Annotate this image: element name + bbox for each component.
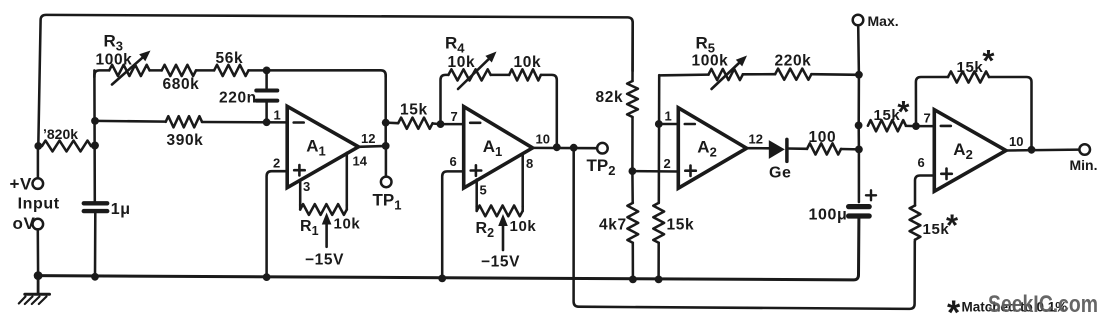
wiper arrow R1 to -15V bbox=[322, 213, 332, 247]
capacitor 220n bbox=[256, 70, 277, 122]
resistor 820k input bbox=[42, 141, 91, 152]
terminal 0V input bbox=[33, 219, 44, 276]
capacitor C 1u bbox=[84, 203, 107, 276]
wire output A2b bbox=[1006, 148, 1079, 151]
op-amp A2 first bbox=[678, 108, 746, 188]
svg-text:100k: 100k bbox=[692, 53, 729, 70]
svg-text:−15V: −15V bbox=[305, 252, 344, 269]
svg-text:56k: 56k bbox=[216, 50, 244, 67]
label pin6 A1b bbox=[450, 154, 457, 169]
label pin8 A1b bbox=[526, 156, 533, 171]
label pin10 A1b bbox=[536, 132, 550, 147]
label pin5 A1b bbox=[480, 183, 487, 198]
svg-text:15k: 15k bbox=[400, 102, 428, 119]
node 15k junction bbox=[382, 119, 390, 127]
svg-text:10k: 10k bbox=[514, 54, 542, 71]
terminal TP1 bbox=[381, 177, 392, 188]
label TP1 bbox=[373, 191, 402, 213]
resistor 390k bbox=[166, 116, 202, 127]
label Input bbox=[18, 196, 60, 213]
svg-text:15k: 15k bbox=[957, 59, 984, 76]
svg-text:4k7: 4k7 bbox=[599, 217, 627, 234]
label pin2 A2a bbox=[664, 156, 671, 171]
node pin2 ground junction bbox=[263, 273, 271, 281]
label R5 bbox=[696, 34, 716, 56]
node 4k7 ground junction bbox=[629, 276, 637, 284]
node ground-rail left bbox=[34, 271, 43, 280]
label 10k R4a bbox=[448, 54, 476, 71]
node pin7 A2b junction bbox=[912, 122, 920, 130]
node divider mid junction bbox=[629, 167, 637, 175]
label 100k R5 bbox=[692, 53, 729, 70]
svg-text:10k: 10k bbox=[448, 54, 476, 71]
label 390k bbox=[167, 132, 204, 149]
label 15k divider bbox=[667, 217, 695, 234]
label matched note bbox=[947, 294, 1067, 322]
label 220k bbox=[775, 53, 812, 70]
svg-text:2: 2 bbox=[664, 156, 671, 171]
svg-text:15k: 15k bbox=[874, 107, 901, 124]
label 4k7 bbox=[599, 217, 627, 234]
resistor 4k7 bbox=[627, 171, 638, 279]
label pin1 A1a bbox=[274, 108, 281, 123]
wiper arrow R2 to -15V bbox=[498, 214, 508, 250]
potentiometer R1 10k bbox=[300, 204, 347, 215]
label +V bbox=[10, 174, 33, 193]
wire +V left vertical and top rail to divider bbox=[38, 15, 632, 146]
resistor 15k interstage bbox=[386, 118, 441, 129]
node 15k-star left junction bbox=[855, 122, 863, 130]
svg-text:3: 3 bbox=[303, 179, 310, 194]
wire pin2 A2a bbox=[632, 170, 678, 173]
node R5 feedback right bbox=[855, 71, 863, 79]
node 820k-left junction on +V line bbox=[34, 142, 42, 150]
svg-text:R2: R2 bbox=[476, 220, 495, 240]
svg-text:10: 10 bbox=[1009, 134, 1023, 149]
potentiometer R3 100k bbox=[109, 65, 149, 76]
resistor 82k bbox=[627, 22, 638, 171]
svg-text:10: 10 bbox=[536, 132, 550, 147]
wire inverting input line stage1 bbox=[95, 121, 287, 123]
label 15k-star ground bbox=[923, 208, 960, 243]
svg-text:Ge: Ge bbox=[769, 165, 792, 182]
label pin7 A1b bbox=[451, 109, 458, 124]
svg-text:82k: 82k bbox=[596, 89, 624, 106]
potentiometer R4 10k bbox=[448, 69, 490, 80]
svg-text:Min.: Min. bbox=[1070, 157, 1098, 173]
node pin7 A1b junction bbox=[437, 120, 445, 128]
label 0V bbox=[13, 214, 36, 233]
label pin3 A1a bbox=[303, 179, 310, 194]
label 10k R4b bbox=[514, 54, 542, 71]
wire feedback down to output node A1a bbox=[384, 75, 387, 146]
wire feedback row stage3 bbox=[659, 74, 859, 75]
svg-text:6: 6 bbox=[918, 155, 925, 170]
wire feedback row stage2 bbox=[441, 75, 557, 147]
node 390k-right junction bbox=[263, 118, 271, 126]
potentiometer R2 10k bbox=[477, 206, 523, 217]
label 10k R2 bbox=[510, 218, 537, 235]
ground symbol bbox=[19, 276, 50, 304]
label pin7 A2b bbox=[924, 111, 931, 126]
resistor 100 bbox=[807, 143, 859, 154]
svg-text:TP2: TP2 bbox=[587, 156, 616, 178]
wire pin6 A2b down bbox=[915, 176, 934, 206]
node 390k junction bbox=[91, 117, 99, 125]
svg-text:oV: oV bbox=[13, 214, 36, 233]
label plus 100u bbox=[866, 190, 876, 200]
label pin12 A1a bbox=[361, 131, 375, 146]
wire feedback row stage4 bbox=[916, 77, 1032, 150]
wire pin14 A1a down bbox=[346, 153, 349, 205]
wire pin5 A1b down bbox=[475, 180, 478, 207]
label Ge bbox=[769, 165, 792, 182]
svg-text:220n: 220n bbox=[219, 90, 257, 107]
svg-text:6: 6 bbox=[450, 154, 457, 169]
svg-text:*: * bbox=[982, 43, 995, 78]
wire pin2 A1a to ground rail bbox=[267, 171, 288, 277]
svg-text:8: 8 bbox=[526, 156, 533, 171]
svg-text:12: 12 bbox=[749, 132, 763, 147]
wire pin7 A1b bbox=[441, 123, 464, 126]
svg-text:7: 7 bbox=[924, 111, 931, 126]
label -15V R1 bbox=[305, 252, 344, 269]
wire pin1 A2a bbox=[659, 123, 679, 126]
wire output A2a to diode bbox=[747, 147, 770, 150]
svg-text:10k: 10k bbox=[510, 218, 537, 235]
node output A1a bbox=[382, 142, 390, 150]
label 15k-star input bbox=[874, 94, 911, 129]
svg-text:1μ: 1μ bbox=[111, 201, 131, 218]
op-amp A2 second bbox=[934, 110, 1006, 192]
terminal Max bbox=[853, 15, 864, 75]
label pin10 A2b bbox=[1009, 134, 1023, 149]
svg-text:100μ: 100μ bbox=[809, 207, 848, 224]
label R4 bbox=[445, 34, 465, 56]
label pin12 A2a bbox=[749, 132, 763, 147]
label 820k bbox=[43, 126, 78, 142]
label 680k bbox=[163, 76, 200, 93]
svg-text:Input: Input bbox=[18, 196, 60, 213]
svg-text:TP1: TP1 bbox=[373, 191, 402, 213]
watermark SeekIC.com bbox=[988, 291, 1098, 318]
label 100 bbox=[809, 129, 837, 146]
node output A2a junction bbox=[855, 146, 863, 154]
svg-text:R3: R3 bbox=[104, 32, 124, 54]
svg-text:*: * bbox=[947, 294, 961, 322]
wire node-A vertical (820k/390k/feedback/1u bus) bbox=[93, 70, 96, 201]
label -15V R2 bbox=[481, 254, 520, 271]
op-amp A1 first bbox=[287, 106, 358, 187]
wire pin3 A1a down bbox=[299, 180, 302, 205]
svg-text:14: 14 bbox=[353, 154, 368, 169]
terminal Min bbox=[1079, 144, 1090, 155]
label pin14 A1a bbox=[353, 154, 368, 169]
label pin6 A2b bbox=[918, 155, 925, 170]
resistor 220k bbox=[775, 69, 811, 80]
svg-text:390k: 390k bbox=[167, 132, 204, 149]
svg-text:*: * bbox=[897, 94, 910, 129]
resistor 15k to ground bbox=[653, 75, 664, 279]
resistor 680k bbox=[162, 65, 196, 76]
wire output A1a bbox=[359, 145, 386, 148]
label 82k bbox=[596, 89, 624, 106]
svg-text:220k: 220k bbox=[775, 53, 812, 70]
pot arrow R4 bbox=[458, 52, 497, 90]
label pin2 A1a bbox=[273, 156, 280, 171]
label TP2 bbox=[587, 156, 616, 178]
label 100u bbox=[809, 207, 848, 224]
label 220n bbox=[219, 90, 257, 107]
svg-text:100: 100 bbox=[809, 129, 837, 146]
svg-text:*: * bbox=[946, 208, 959, 243]
terminal +V input bbox=[33, 146, 44, 189]
wire output A1b bbox=[533, 147, 598, 150]
svg-text:10k: 10k bbox=[334, 216, 361, 233]
node output A2b junction bbox=[1028, 146, 1036, 154]
node 1u top junction bbox=[91, 142, 99, 150]
label 100k bbox=[96, 52, 133, 69]
label R3 bbox=[104, 32, 124, 54]
label 10k R1 bbox=[334, 216, 361, 233]
label 1u bbox=[111, 201, 131, 218]
capacitor 100u bbox=[849, 207, 870, 216]
terminal TP2 bbox=[597, 143, 608, 154]
wire pin6 A1b to ground rail bbox=[442, 171, 464, 278]
svg-text:1: 1 bbox=[274, 108, 281, 123]
label pin1 A2a bbox=[665, 109, 672, 124]
wire pin8 A1b down bbox=[521, 154, 524, 207]
svg-text:R4: R4 bbox=[445, 34, 465, 56]
wire Max bus vertical bbox=[857, 75, 860, 202]
resistor 15k-star ground bbox=[910, 206, 921, 243]
node 820k-right junction bbox=[91, 142, 99, 150]
pot arrow R3 bbox=[112, 51, 151, 85]
svg-text:7: 7 bbox=[451, 109, 458, 124]
resistor 56k bbox=[214, 65, 248, 76]
label R1 bbox=[300, 218, 319, 238]
svg-text:12: 12 bbox=[361, 131, 375, 146]
node pin1 A2a junction bbox=[655, 120, 663, 128]
svg-text:+V: +V bbox=[10, 174, 33, 193]
node 15k ground junction bbox=[655, 276, 663, 284]
svg-text:Max.: Max. bbox=[868, 13, 899, 29]
svg-text:R1: R1 bbox=[300, 218, 319, 238]
node feedback output A1b bbox=[553, 143, 561, 151]
pot arrow R5 bbox=[712, 56, 748, 90]
svg-text:ʼ820k: ʼ820k bbox=[43, 126, 78, 142]
svg-text:100k: 100k bbox=[96, 52, 133, 69]
svg-text:SeekIC.com: SeekIC.com bbox=[988, 291, 1098, 318]
label 15k-star feedback bbox=[957, 43, 996, 78]
svg-text:−15V: −15V bbox=[481, 254, 520, 271]
label Max bbox=[868, 13, 899, 29]
label 56k bbox=[216, 50, 244, 67]
ground rail bottom bbox=[38, 219, 859, 280]
potentiometer R5 100k bbox=[709, 69, 743, 80]
wire feedback row stage1 bbox=[94, 70, 385, 77]
label R2 bbox=[476, 220, 495, 240]
label 15k interstage bbox=[400, 102, 428, 119]
svg-text:15k: 15k bbox=[667, 217, 695, 234]
node 1u bottom on rail bbox=[91, 273, 99, 281]
svg-text:680k: 680k bbox=[163, 76, 200, 93]
op-amp A1 second bbox=[464, 107, 533, 188]
resistor 15k-star input bbox=[868, 120, 916, 131]
wire TP2 node to stage4 bottom link bbox=[574, 148, 915, 309]
svg-text:1: 1 bbox=[665, 109, 672, 124]
svg-text:5: 5 bbox=[480, 183, 487, 198]
node TP2 branch bbox=[570, 144, 578, 152]
resistor 15k-star feedback bbox=[948, 71, 989, 82]
node 220n top junction bbox=[263, 67, 271, 75]
svg-text:2: 2 bbox=[273, 156, 280, 171]
label Min bbox=[1070, 157, 1098, 173]
wire TP1 drop bbox=[385, 146, 388, 177]
diode Ge bbox=[769, 139, 807, 161]
node pin6 ground junction bbox=[438, 275, 446, 283]
wire pin7 A2b bbox=[916, 125, 934, 128]
resistor 10k stage2 bbox=[509, 69, 541, 80]
